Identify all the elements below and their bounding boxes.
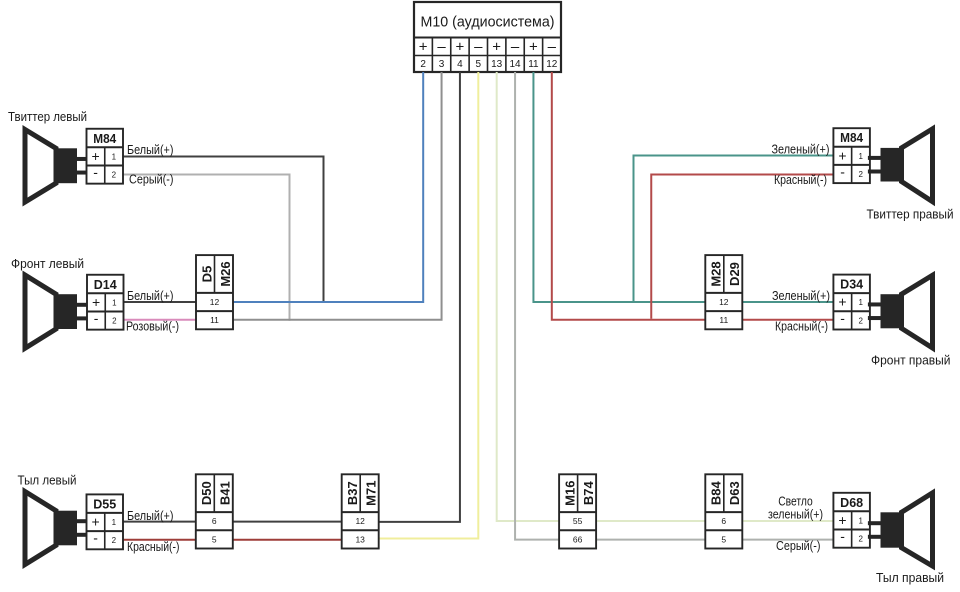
svg-text:1: 1 [112, 518, 117, 527]
svg-text:13: 13 [355, 534, 365, 544]
svg-text:Серый(-): Серый(-) [129, 172, 174, 187]
svg-text:5: 5 [212, 534, 217, 544]
svg-text:12: 12 [355, 516, 365, 526]
svg-text:1: 1 [112, 298, 117, 307]
svg-text:+: + [419, 39, 428, 56]
svg-text:11: 11 [528, 59, 539, 70]
svg-text:-: - [93, 164, 98, 180]
svg-text:2: 2 [112, 536, 117, 545]
svg-text:Красный(-): Красный(-) [775, 318, 828, 333]
connector D14 (front left) [87, 275, 124, 330]
connector D34 (front right) [833, 275, 870, 330]
wire rear-left - (жёлтый) B37/M71→M10 pin 5 [379, 72, 478, 539]
wire tweeter-left - (Серый) M84→node [123, 175, 290, 321]
connector B84/D63 [705, 474, 742, 548]
svg-text:-: - [840, 528, 845, 544]
wire tweeter-right + (зелёный) node→M84 [634, 156, 834, 303]
connector M28/D29 [705, 255, 742, 329]
svg-text:5: 5 [721, 534, 726, 544]
speaker rear right [868, 493, 933, 566]
svg-text:1: 1 [859, 298, 864, 307]
svg-text:1: 1 [112, 152, 117, 161]
svg-text:+: + [456, 39, 465, 56]
svg-text:6: 6 [212, 516, 217, 526]
wire front-right - (красный) M10 pin 12→M28/D29 [552, 72, 706, 320]
svg-text:Красный(-): Красный(-) [774, 172, 827, 187]
svg-text:Белый(+): Белый(+) [127, 142, 174, 157]
wire tweeter-right - (красный) node→M84 [651, 175, 834, 319]
connector M16/B74 [559, 474, 596, 548]
svg-text:+: + [92, 514, 100, 530]
svg-text:Белый(+): Белый(+) [127, 508, 174, 523]
svg-text:Фронт левый: Фронт левый [11, 256, 84, 271]
svg-text:+: + [529, 39, 538, 56]
svg-text:6: 6 [721, 516, 726, 526]
svg-text:66: 66 [573, 534, 583, 544]
connector M84 (tweeter right) [833, 128, 870, 183]
svg-text:M84: M84 [93, 131, 117, 146]
svg-text:D29: D29 [727, 262, 742, 286]
wire front-left - (серый) D5/M26→M10 pin 3 [233, 72, 442, 320]
svg-text:Тыл левый: Тыл левый [18, 473, 77, 488]
svg-text:–: – [511, 39, 520, 56]
svg-text:2: 2 [859, 170, 864, 179]
wire rear-left + D50/B41→B37/M71 [233, 521, 344, 523]
svg-text:Тыл правый: Тыл правый [876, 570, 944, 585]
wire rear-right + (светло-зелёный) M10 pin 13→M16/B74 [497, 72, 560, 521]
svg-text:12: 12 [719, 297, 729, 307]
svg-text:-: - [840, 164, 845, 180]
svg-text:D14: D14 [94, 277, 118, 292]
svg-text:11: 11 [719, 315, 728, 325]
svg-text:B41: B41 [218, 481, 233, 505]
svg-text:–: – [437, 39, 446, 56]
svg-text:3: 3 [439, 59, 445, 70]
connector D5/M26 [196, 255, 233, 329]
speaker rear left [25, 492, 87, 565]
svg-text:M71: M71 [363, 481, 378, 506]
connector M10 (head unit) [414, 2, 561, 72]
wire front-right + (зелёный) M10 pin 11→M28/D29 [533, 72, 705, 302]
connector B37/M71 [342, 474, 379, 548]
svg-text:-: - [840, 310, 845, 326]
wire rear-right + M16/B74→B84/D63 [596, 520, 705, 522]
svg-text:Фронт правый: Фронт правый [871, 353, 951, 368]
svg-text:2: 2 [420, 59, 426, 70]
wire rear-right - B84/D63→D68 [741, 539, 834, 541]
wire rear-left + (чёрный) B37/M71→M10 pin 4 [379, 72, 460, 522]
svg-text:Зеленый(+): Зеленый(+) [772, 142, 830, 157]
speaker front left [25, 275, 87, 348]
connector D50/B41 [196, 474, 233, 548]
svg-text:Твиттер правый: Твиттер правый [867, 207, 954, 222]
connector D68 (rear right) [833, 493, 870, 548]
wire rear-right + B84/D63→D68 [741, 520, 834, 522]
svg-text:M28: M28 [709, 261, 724, 286]
svg-text:Твиттер левый: Твиттер левый [8, 109, 87, 124]
svg-text:13: 13 [491, 59, 503, 70]
svg-text:-: - [94, 310, 99, 326]
wire front-right + M28/D29→D34 [741, 301, 834, 303]
svg-text:5: 5 [476, 59, 482, 70]
wire rear-right - (серый) M10 pin 14→M16/B74 [515, 72, 560, 540]
svg-text:D5: D5 [199, 266, 214, 283]
wire rear-left - D50/B41→B37/M71 [233, 539, 344, 541]
connector M84 (tweeter left) [87, 129, 124, 184]
svg-text:1: 1 [859, 152, 864, 161]
svg-text:55: 55 [573, 516, 583, 526]
svg-text:2: 2 [112, 171, 117, 180]
svg-text:12: 12 [546, 59, 558, 70]
wire front-right - M28/D29→D34 [741, 319, 834, 321]
svg-text:B37: B37 [345, 481, 360, 505]
svg-text:D55: D55 [93, 496, 116, 511]
svg-text:+: + [492, 39, 501, 56]
svg-text:M16: M16 [562, 481, 577, 506]
svg-text:-: - [93, 530, 98, 546]
svg-text:11: 11 [210, 315, 219, 325]
svg-text:Красный(-): Красный(-) [127, 539, 180, 554]
svg-text:зеленый(+): зеленый(+) [768, 507, 823, 522]
svg-text:Розовый(-): Розовый(-) [126, 319, 179, 334]
speaker tweeter right [868, 129, 933, 202]
svg-text:2: 2 [859, 535, 864, 544]
wire rear-left - (Красный) D55→D50/B41 [123, 539, 198, 541]
wire front-left - (Розовый) D14→D5/M26 [123, 319, 198, 321]
svg-text:+: + [92, 148, 100, 164]
svg-text:D50: D50 [199, 481, 214, 505]
svg-text:М10 (аудиосистема): М10 (аудиосистема) [421, 14, 555, 31]
svg-text:D68: D68 [840, 495, 863, 510]
connector D55 (rear left) [87, 494, 124, 549]
svg-text:1: 1 [859, 516, 864, 525]
svg-text:D34: D34 [840, 277, 864, 292]
svg-text:+: + [838, 147, 846, 163]
svg-text:2: 2 [859, 316, 864, 325]
svg-text:–: – [474, 39, 483, 56]
svg-text:B74: B74 [581, 481, 596, 506]
svg-text:–: – [548, 39, 557, 56]
svg-text:+: + [92, 294, 100, 310]
svg-text:Серый(-): Серый(-) [776, 538, 821, 553]
svg-text:B84: B84 [709, 481, 724, 506]
svg-text:2: 2 [112, 317, 117, 326]
wire front-left + (Белый) D14→D5/M26 [123, 301, 198, 303]
svg-text:4: 4 [457, 59, 463, 70]
svg-text:14: 14 [509, 59, 521, 70]
svg-text:Зеленый(+): Зеленый(+) [772, 288, 830, 303]
wire tweeter-left + (Белый) M84→node [123, 157, 324, 304]
svg-text:+: + [838, 294, 846, 310]
svg-text:D63: D63 [727, 481, 742, 505]
wire front-left + (синий) D5/M26→M10 pin 2 [233, 72, 424, 302]
wire rear-right - M16/B74→B84/D63 [596, 539, 705, 541]
svg-text:12: 12 [210, 297, 220, 307]
svg-text:M84: M84 [840, 130, 864, 145]
svg-text:+: + [838, 512, 846, 528]
svg-text:Белый(+): Белый(+) [127, 288, 174, 303]
svg-text:M26: M26 [218, 261, 233, 286]
wire rear-left + (Белый) D55→D50/B41 [123, 521, 198, 523]
speaker front right [868, 275, 933, 348]
speaker tweeter left [25, 130, 87, 203]
